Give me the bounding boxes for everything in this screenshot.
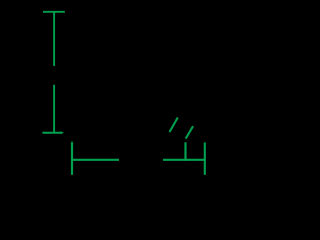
wire: horizontal dimension line left segment xyxy=(71,159,119,161)
arrowhead pointing right at end of bottom crossbar xyxy=(61,131,64,134)
oblique tick 1 xyxy=(170,118,178,133)
wire: vertical dimension line lower segment xyxy=(53,85,55,133)
tick: bottom crossbar of vertical dimension xyxy=(42,132,61,134)
short vertical extension at x=185 xyxy=(184,142,186,161)
arrowhead pointing up at top of left extension bar xyxy=(71,141,74,144)
tick: top crossbar of vertical dimension xyxy=(43,11,65,13)
extension bar (right) of horizontal dimension xyxy=(204,142,206,174)
extension bar (left) of horizontal dimension xyxy=(71,143,73,175)
wire: horizontal dimension line right segment xyxy=(163,159,206,161)
wire: vertical dimension line upper segment xyxy=(53,11,55,66)
oblique tick 2 xyxy=(186,126,193,139)
